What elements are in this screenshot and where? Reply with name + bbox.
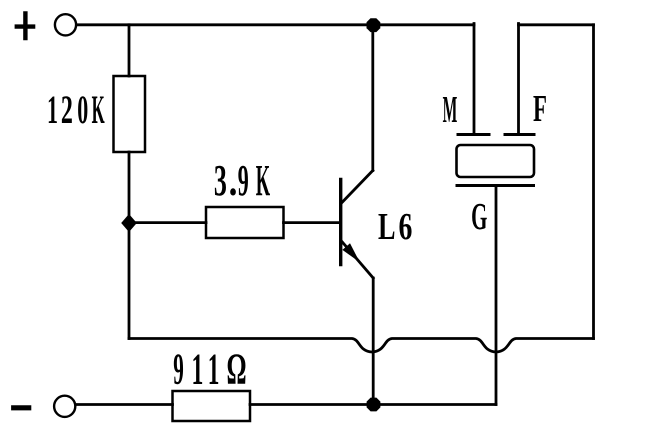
node - terminal circle [54, 396, 75, 417]
terminal + (positive supply symbol) [15, 11, 36, 40]
svg-text:.: . [229, 155, 238, 205]
svg-text:L: L [378, 206, 395, 248]
terminal - (negative supply symbol) [11, 405, 31, 410]
wire 3.9K to base [284, 221, 340, 224]
wire bottom rail [77, 403, 497, 406]
svg-text:K: K [256, 157, 270, 205]
node junction base-node [121, 214, 137, 232]
resonator B1 plate F [505, 133, 534, 136]
wire base node to 3.9K [129, 221, 206, 224]
wire F lead vertical [517, 24, 520, 135]
svg-text:Ω: Ω [227, 344, 247, 393]
label L6 transistor designator [378, 206, 412, 248]
resistor R2 3.9K body [206, 207, 284, 238]
wire F bracket top [519, 23, 594, 26]
resonator B1 body [457, 145, 535, 177]
resistor R3 911ohm body [173, 391, 251, 421]
svg-text:K: K [92, 88, 105, 132]
label 120K [47, 87, 105, 133]
wire G lead vertical [495, 186, 498, 405]
wire top rail [77, 23, 475, 26]
wire emitter vertical [372, 278, 375, 405]
wire bottom loop with crossover hops [129, 339, 594, 353]
resonator B1 plate M [458, 133, 489, 136]
transistor Q1 emitter diagonal [341, 241, 373, 279]
wire 120K top lead [128, 25, 131, 76]
wire M lead vertical [473, 24, 476, 135]
transistor Q1 base bar [339, 180, 342, 265]
wire 120K bottom lead [128, 152, 131, 223]
wire right side vertical [592, 25, 595, 339]
label 3.9K [214, 155, 270, 205]
transistor Q1 emitter arrow [342, 243, 359, 262]
node + terminal circle [55, 14, 76, 35]
node junction emitter-bottom [367, 398, 381, 412]
svg-text:6: 6 [398, 206, 412, 248]
svg-text:3: 3 [214, 156, 227, 205]
svg-text:9: 9 [238, 156, 249, 205]
svg-text:M: M [443, 89, 458, 131]
svg-text:9: 9 [173, 345, 184, 393]
svg-text:1: 1 [208, 345, 220, 394]
svg-text:1: 1 [47, 87, 58, 132]
svg-text:F: F [533, 87, 547, 129]
label 911ohm [173, 344, 246, 394]
transistor Q1 collector diagonal [341, 171, 373, 204]
resonator B1 plate G [457, 184, 534, 187]
svg-text:G: G [471, 196, 487, 238]
wire collector vertical [371, 25, 374, 171]
svg-text:2: 2 [61, 89, 73, 133]
wire base node down to bottom loop [128, 223, 131, 339]
node junction collector-toprail [367, 18, 381, 32]
resistor R1 120K body [114, 76, 146, 152]
svg-text:1: 1 [192, 344, 204, 394]
svg-text:0: 0 [77, 87, 88, 132]
